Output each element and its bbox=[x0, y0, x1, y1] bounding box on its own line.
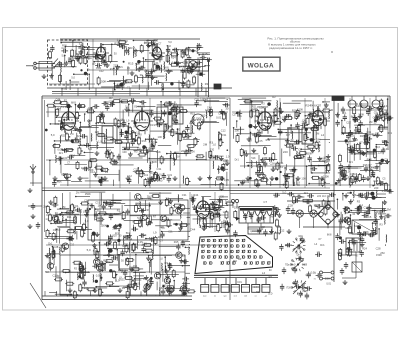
svg-text:R7: R7 bbox=[264, 115, 268, 119]
svg-text:C31: C31 bbox=[218, 112, 223, 116]
svg-text:R3: R3 bbox=[261, 102, 265, 106]
svg-text:R15: R15 bbox=[352, 172, 357, 176]
svg-text:220: 220 bbox=[283, 150, 288, 154]
svg-text:R21: R21 bbox=[67, 215, 72, 219]
svg-text:C44: C44 bbox=[186, 64, 191, 68]
svg-text:C12: C12 bbox=[353, 138, 359, 142]
svg-text:0,01: 0,01 bbox=[142, 242, 147, 245]
svg-text:C5: C5 bbox=[128, 287, 132, 291]
svg-text:6K8: 6K8 bbox=[179, 64, 184, 68]
svg-text:R3: R3 bbox=[168, 292, 172, 296]
svg-text:100: 100 bbox=[159, 225, 164, 229]
svg-text:100: 100 bbox=[338, 178, 343, 182]
svg-text:2M: 2M bbox=[262, 227, 265, 229]
svg-text:0,01: 0,01 bbox=[62, 156, 68, 160]
svg-text:C5: C5 bbox=[314, 203, 318, 207]
svg-text:5,0: 5,0 bbox=[87, 248, 91, 252]
svg-text:100: 100 bbox=[158, 135, 163, 139]
svg-text:R24: R24 bbox=[134, 124, 139, 128]
svg-text:C7: C7 bbox=[263, 200, 267, 204]
svg-text:C7: C7 bbox=[169, 203, 173, 207]
svg-text:0,01: 0,01 bbox=[135, 281, 141, 285]
svg-text:R24: R24 bbox=[362, 247, 367, 251]
svg-text:0,05: 0,05 bbox=[159, 172, 165, 176]
svg-text:R3: R3 bbox=[233, 259, 237, 263]
svg-text:30: 30 bbox=[290, 138, 294, 142]
svg-text:L4: L4 bbox=[262, 271, 266, 275]
svg-text:R15: R15 bbox=[142, 139, 147, 143]
svg-text:R3: R3 bbox=[357, 200, 361, 204]
svg-text:0,01: 0,01 bbox=[384, 105, 389, 108]
svg-text:Dr1: Dr1 bbox=[349, 160, 354, 164]
svg-text:R15: R15 bbox=[55, 228, 61, 232]
svg-text:C12: C12 bbox=[99, 70, 104, 73]
svg-text:5,0: 5,0 bbox=[117, 37, 121, 41]
svg-text:R21: R21 bbox=[360, 134, 365, 138]
svg-text:R15: R15 bbox=[128, 61, 134, 65]
svg-text:100: 100 bbox=[298, 234, 303, 238]
svg-text:150K: 150K bbox=[234, 206, 240, 210]
svg-text:0,01: 0,01 bbox=[216, 116, 222, 120]
svg-text:C28: C28 bbox=[302, 262, 308, 266]
svg-text:Dr1: Dr1 bbox=[235, 158, 240, 162]
svg-text:C5: C5 bbox=[374, 111, 378, 115]
svg-text:6K8: 6K8 bbox=[345, 226, 350, 230]
svg-text:R3: R3 bbox=[317, 108, 321, 112]
svg-text:прием: прием bbox=[250, 230, 257, 233]
svg-text:L9: L9 bbox=[103, 47, 107, 51]
svg-text:220: 220 bbox=[325, 276, 330, 280]
svg-text:51K: 51K bbox=[167, 44, 172, 48]
svg-text:100: 100 bbox=[197, 154, 202, 158]
svg-text:R21: R21 bbox=[118, 66, 123, 69]
svg-text:C28: C28 bbox=[270, 161, 275, 165]
svg-text:0,05: 0,05 bbox=[357, 102, 363, 106]
svg-text:0,01: 0,01 bbox=[80, 143, 86, 147]
svg-text:51K: 51K bbox=[251, 157, 256, 160]
svg-text:Dr1: Dr1 bbox=[144, 173, 149, 177]
svg-text:WOLGA: WOLGA bbox=[248, 63, 274, 70]
svg-text:0,01: 0,01 bbox=[173, 121, 179, 125]
svg-text:Dr1: Dr1 bbox=[98, 218, 103, 221]
svg-text:C31: C31 bbox=[107, 198, 112, 202]
svg-text:R3: R3 bbox=[115, 232, 119, 236]
svg-text:51K: 51K bbox=[145, 286, 150, 289]
svg-text:C28: C28 bbox=[376, 247, 381, 251]
svg-text:220: 220 bbox=[173, 118, 178, 122]
svg-text:Л4 6Х2П: Л4 6Х2П bbox=[310, 103, 321, 107]
svg-text:C28: C28 bbox=[182, 60, 188, 64]
svg-text:R3: R3 bbox=[129, 46, 133, 50]
svg-text:вык: вык bbox=[203, 296, 207, 298]
svg-text:П2а: П2а bbox=[285, 264, 290, 267]
svg-text:C31: C31 bbox=[373, 115, 378, 119]
svg-text:R3: R3 bbox=[141, 65, 145, 69]
svg-text:R3: R3 bbox=[272, 166, 276, 170]
svg-text:100: 100 bbox=[252, 107, 257, 111]
svg-text:R24: R24 bbox=[256, 291, 261, 294]
svg-text:30: 30 bbox=[288, 113, 292, 117]
svg-text:5,0: 5,0 bbox=[149, 236, 153, 240]
svg-text:R15: R15 bbox=[62, 44, 67, 48]
svg-text:1,0: 1,0 bbox=[70, 132, 74, 136]
svg-text:C12: C12 bbox=[221, 128, 226, 132]
svg-text:C12: C12 bbox=[346, 122, 351, 125]
svg-text:R21: R21 bbox=[61, 133, 66, 137]
svg-text:R15: R15 bbox=[366, 215, 372, 219]
svg-text:Л5 6П14: Л5 6П14 bbox=[212, 200, 223, 204]
svg-text:Dr1: Dr1 bbox=[59, 151, 64, 155]
svg-text:C12: C12 bbox=[99, 261, 105, 265]
svg-text:2M: 2M bbox=[90, 157, 94, 161]
svg-text:0,01: 0,01 bbox=[382, 190, 387, 193]
svg-text:5,0: 5,0 bbox=[379, 110, 383, 113]
svg-text:C28: C28 bbox=[205, 108, 210, 112]
svg-text:C44: C44 bbox=[302, 121, 307, 123]
svg-text:51K: 51K bbox=[351, 134, 356, 138]
svg-text:R24: R24 bbox=[70, 155, 75, 158]
svg-text:0,01: 0,01 bbox=[275, 163, 281, 167]
svg-text:150K: 150K bbox=[209, 156, 215, 160]
svg-text:5,0: 5,0 bbox=[88, 147, 92, 151]
svg-text:C31: C31 bbox=[167, 173, 172, 177]
svg-text:C44: C44 bbox=[254, 285, 259, 289]
svg-text:R24: R24 bbox=[63, 172, 69, 176]
svg-text:Dr1: Dr1 bbox=[342, 111, 347, 115]
svg-text:П2б: П2б bbox=[287, 287, 292, 290]
svg-text:30: 30 bbox=[364, 194, 368, 198]
svg-text:C28: C28 bbox=[194, 98, 199, 101]
svg-text:C31: C31 bbox=[237, 281, 242, 284]
svg-text:C28: C28 bbox=[54, 245, 59, 249]
svg-text:100: 100 bbox=[55, 274, 60, 278]
svg-text:5,0: 5,0 bbox=[282, 191, 286, 195]
svg-text:R24: R24 bbox=[106, 260, 111, 264]
svg-text:6K8: 6K8 bbox=[183, 287, 188, 290]
svg-text:Dr1: Dr1 bbox=[247, 254, 252, 258]
svg-text:R7: R7 bbox=[258, 122, 262, 126]
svg-text:51K: 51K bbox=[156, 150, 161, 154]
svg-text:R7: R7 bbox=[226, 159, 230, 163]
svg-text:2M: 2M bbox=[372, 132, 377, 136]
svg-text:C44: C44 bbox=[128, 238, 133, 241]
svg-text:C7: C7 bbox=[384, 157, 388, 161]
svg-text:100: 100 bbox=[98, 203, 103, 207]
svg-text:R24: R24 bbox=[366, 108, 371, 112]
svg-text:5,0: 5,0 bbox=[98, 287, 102, 291]
svg-text:51K: 51K bbox=[119, 100, 124, 104]
svg-text:C28: C28 bbox=[373, 179, 378, 183]
svg-text:2M: 2M bbox=[387, 208, 392, 212]
svg-text:220: 220 bbox=[374, 186, 379, 190]
svg-text:100: 100 bbox=[379, 211, 384, 214]
svg-text:150K: 150K bbox=[323, 174, 329, 178]
svg-text:C12: C12 bbox=[193, 63, 198, 67]
svg-text:R15: R15 bbox=[190, 112, 195, 116]
svg-text:0,01: 0,01 bbox=[311, 270, 317, 274]
svg-text:30: 30 bbox=[225, 106, 229, 110]
svg-text:R15: R15 bbox=[174, 240, 179, 244]
svg-text:220: 220 bbox=[210, 148, 215, 152]
svg-text:0,01: 0,01 bbox=[96, 274, 102, 278]
svg-text:C5: C5 bbox=[84, 199, 88, 203]
svg-text:150K: 150K bbox=[306, 152, 312, 156]
svg-text:C31: C31 bbox=[69, 237, 75, 241]
svg-text:C44: C44 bbox=[203, 98, 208, 102]
svg-text:2M: 2M bbox=[316, 132, 320, 136]
svg-text:R24: R24 bbox=[305, 103, 311, 107]
svg-text:R3: R3 bbox=[272, 95, 276, 99]
svg-text:L4: L4 bbox=[284, 143, 288, 147]
svg-text:51K: 51K bbox=[178, 110, 183, 114]
svg-text:51K: 51K bbox=[176, 157, 181, 159]
svg-text:1,0: 1,0 bbox=[292, 263, 296, 267]
svg-text:2M: 2M bbox=[43, 204, 47, 208]
svg-text:150K: 150K bbox=[140, 233, 146, 237]
svg-text:R7: R7 bbox=[123, 236, 127, 240]
svg-text:Л2 6К4П: Л2 6К4П bbox=[134, 104, 145, 108]
svg-text:2M: 2M bbox=[121, 270, 125, 274]
svg-text:Dr1: Dr1 bbox=[48, 241, 53, 245]
svg-text:C28: C28 bbox=[173, 105, 178, 109]
svg-text:C31: C31 bbox=[287, 127, 292, 130]
svg-text:радиоприёмников 11-го 1957 гг.: радиоприёмников 11-го 1957 гг. bbox=[269, 46, 313, 50]
svg-text:C28: C28 bbox=[288, 204, 293, 208]
svg-text:6K8: 6K8 bbox=[61, 88, 66, 91]
svg-text:C12: C12 bbox=[90, 170, 96, 174]
svg-text:0,01: 0,01 bbox=[326, 284, 331, 286]
svg-text:R7: R7 bbox=[302, 282, 306, 286]
svg-text:150K: 150K bbox=[376, 254, 382, 257]
svg-text:L9: L9 bbox=[99, 133, 103, 137]
svg-text:150K: 150K bbox=[100, 79, 107, 83]
svg-text:R24: R24 bbox=[62, 118, 67, 122]
svg-text:0,01: 0,01 bbox=[384, 147, 390, 151]
svg-text:220: 220 bbox=[112, 227, 117, 231]
svg-text:0,05: 0,05 bbox=[369, 234, 375, 238]
svg-text:0,05: 0,05 bbox=[58, 148, 64, 151]
svg-text:Dr1: Dr1 bbox=[304, 191, 309, 195]
svg-text:220: 220 bbox=[181, 149, 186, 153]
svg-text:Dr1: Dr1 bbox=[133, 264, 138, 268]
svg-text:2M: 2M bbox=[203, 143, 208, 147]
svg-text:1,0: 1,0 bbox=[212, 143, 216, 146]
svg-text:1,0: 1,0 bbox=[45, 218, 49, 221]
svg-text:C5: C5 bbox=[259, 178, 263, 182]
svg-text:100: 100 bbox=[144, 41, 149, 45]
svg-text:2M: 2M bbox=[164, 69, 169, 73]
svg-text:2M: 2M bbox=[349, 231, 354, 235]
svg-text:5,0: 5,0 bbox=[346, 170, 350, 174]
svg-text:Dr1: Dr1 bbox=[151, 123, 156, 127]
svg-text:R7: R7 bbox=[110, 234, 114, 238]
svg-text:R21: R21 bbox=[148, 197, 153, 200]
svg-text:R7: R7 bbox=[267, 124, 271, 128]
svg-text:R15: R15 bbox=[339, 168, 344, 172]
svg-text:C44: C44 bbox=[96, 66, 102, 70]
svg-text:2M: 2M bbox=[270, 215, 274, 219]
svg-text:2M: 2M bbox=[76, 190, 80, 194]
svg-text:C7: C7 bbox=[136, 111, 140, 115]
svg-text:R21: R21 bbox=[254, 114, 260, 118]
svg-text:C7: C7 bbox=[368, 163, 372, 167]
svg-text:R7: R7 bbox=[104, 134, 108, 138]
svg-text:C7: C7 bbox=[345, 141, 349, 145]
svg-text:R15: R15 bbox=[110, 68, 115, 71]
svg-text:C7: C7 bbox=[159, 239, 163, 243]
svg-text:Dr1: Dr1 bbox=[169, 70, 174, 73]
svg-text:51K: 51K bbox=[57, 181, 62, 184]
svg-text:C28: C28 bbox=[382, 140, 387, 143]
svg-text:Dr1: Dr1 bbox=[225, 199, 230, 203]
svg-text:C31: C31 bbox=[244, 180, 250, 184]
svg-text:C44: C44 bbox=[190, 227, 196, 231]
svg-text:C5: C5 bbox=[232, 113, 236, 117]
svg-text:C7: C7 bbox=[279, 107, 283, 111]
svg-text:R21: R21 bbox=[388, 132, 393, 135]
svg-text:R21: R21 bbox=[237, 114, 242, 118]
svg-text:5,0: 5,0 bbox=[51, 133, 55, 137]
svg-text:5,0: 5,0 bbox=[257, 129, 261, 132]
svg-text:1,0: 1,0 bbox=[144, 128, 148, 132]
svg-text:R7: R7 bbox=[286, 133, 290, 137]
svg-text:C31: C31 bbox=[222, 133, 227, 137]
svg-text:150K: 150K bbox=[358, 113, 364, 117]
svg-text:R24: R24 bbox=[364, 140, 369, 144]
svg-text:6K8: 6K8 bbox=[135, 201, 140, 205]
svg-text:R15: R15 bbox=[266, 139, 271, 142]
svg-text:R21: R21 bbox=[77, 52, 82, 56]
svg-text:220: 220 bbox=[378, 152, 383, 155]
svg-text:L9: L9 bbox=[249, 139, 252, 143]
svg-text:C44: C44 bbox=[56, 98, 61, 102]
svg-text:0,01: 0,01 bbox=[166, 101, 171, 104]
svg-text:150K: 150K bbox=[297, 108, 303, 112]
svg-text:5,0: 5,0 bbox=[268, 292, 272, 296]
svg-text:Dr1: Dr1 bbox=[297, 253, 302, 257]
svg-text:R3: R3 bbox=[197, 57, 201, 61]
svg-text:C44: C44 bbox=[194, 193, 199, 197]
svg-text:150K: 150K bbox=[100, 224, 106, 228]
svg-text:6K8: 6K8 bbox=[327, 234, 332, 237]
svg-text:1,0: 1,0 bbox=[376, 145, 380, 149]
svg-text:R15: R15 bbox=[202, 52, 208, 56]
svg-text:6K8: 6K8 bbox=[71, 100, 76, 104]
svg-text:C12: C12 bbox=[296, 154, 302, 158]
svg-text:C12: C12 bbox=[87, 108, 93, 112]
svg-text:Dr1: Dr1 bbox=[374, 166, 379, 170]
svg-text:6K8: 6K8 bbox=[138, 134, 143, 136]
svg-text:51K: 51K bbox=[45, 272, 50, 274]
svg-text:R24: R24 bbox=[114, 42, 119, 46]
svg-text:L4: L4 bbox=[197, 126, 201, 130]
svg-text:51K: 51K bbox=[354, 224, 359, 228]
svg-text:R21: R21 bbox=[151, 142, 156, 145]
svg-text:C31: C31 bbox=[168, 232, 173, 234]
svg-text:6K8: 6K8 bbox=[269, 114, 274, 118]
svg-text:R3: R3 bbox=[150, 160, 154, 164]
svg-text:6K8: 6K8 bbox=[320, 157, 325, 161]
svg-text:L4: L4 bbox=[105, 100, 109, 104]
svg-text:5,0: 5,0 bbox=[93, 249, 97, 253]
svg-text:C44: C44 bbox=[337, 251, 342, 255]
svg-text:Dr1: Dr1 bbox=[143, 214, 148, 218]
svg-text:220: 220 bbox=[201, 114, 206, 118]
svg-text:R15: R15 bbox=[155, 52, 160, 55]
svg-text:R3: R3 bbox=[205, 82, 209, 86]
svg-text:R21: R21 bbox=[79, 105, 85, 109]
svg-text:R7: R7 bbox=[284, 172, 288, 176]
svg-text:C31: C31 bbox=[182, 193, 187, 197]
svg-text:0,01: 0,01 bbox=[88, 202, 94, 206]
svg-text:150K: 150K bbox=[189, 150, 195, 154]
svg-text:0,05: 0,05 bbox=[302, 289, 308, 293]
svg-text:51K: 51K bbox=[352, 194, 357, 197]
svg-text:220: 220 bbox=[220, 195, 225, 199]
svg-text:R24: R24 bbox=[171, 56, 176, 60]
svg-text:2M: 2M bbox=[369, 121, 372, 124]
svg-text:Dr1: Dr1 bbox=[320, 243, 325, 247]
svg-text:100: 100 bbox=[113, 139, 118, 142]
svg-text:L4: L4 bbox=[321, 133, 325, 137]
svg-text:150K: 150K bbox=[85, 192, 91, 196]
svg-text:5,0: 5,0 bbox=[79, 42, 83, 46]
svg-text:220: 220 bbox=[260, 106, 265, 110]
svg-text:1,0: 1,0 bbox=[226, 155, 230, 159]
svg-text:R7: R7 bbox=[109, 96, 113, 100]
svg-text:6K8: 6K8 bbox=[122, 244, 127, 248]
svg-text:100: 100 bbox=[301, 177, 306, 181]
svg-text:30: 30 bbox=[159, 179, 163, 183]
svg-text:R15: R15 bbox=[302, 141, 307, 145]
svg-text:C31: C31 bbox=[54, 122, 60, 126]
svg-text:L9: L9 bbox=[153, 230, 157, 234]
svg-text:R7: R7 bbox=[153, 215, 157, 219]
svg-text:C12: C12 bbox=[70, 244, 75, 247]
svg-text:2M: 2M bbox=[62, 207, 65, 209]
svg-text:150K: 150K bbox=[147, 147, 154, 151]
svg-text:R15: R15 bbox=[367, 158, 373, 162]
svg-text:100: 100 bbox=[122, 150, 127, 154]
svg-text:150K: 150K bbox=[363, 230, 369, 234]
svg-text:L4: L4 bbox=[105, 170, 108, 174]
svg-text:51K: 51K bbox=[72, 121, 77, 125]
svg-text:220: 220 bbox=[285, 243, 290, 247]
svg-text:C31: C31 bbox=[123, 81, 128, 85]
svg-text:0,01: 0,01 bbox=[73, 204, 79, 208]
svg-text:C31: C31 bbox=[316, 143, 321, 147]
svg-text:100: 100 bbox=[243, 149, 248, 153]
